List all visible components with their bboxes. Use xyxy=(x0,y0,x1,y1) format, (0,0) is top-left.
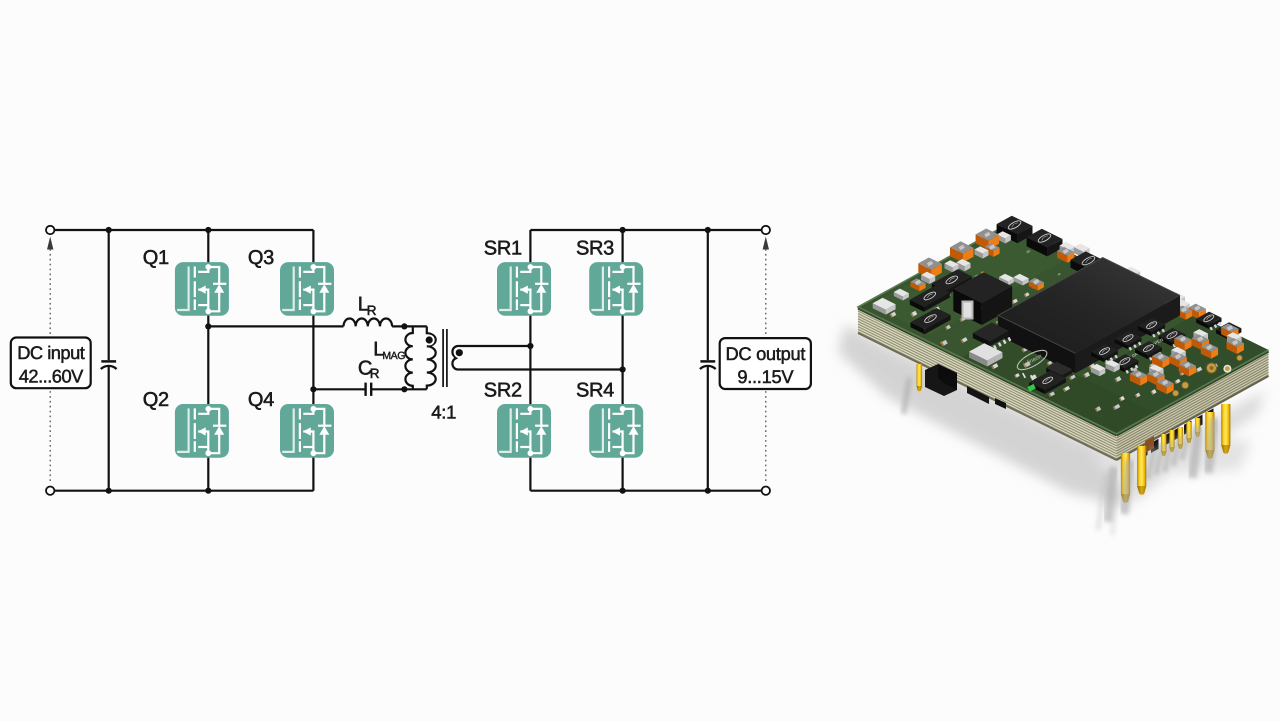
back-right orange 2 xyxy=(1189,304,1206,320)
power block logo 2 xyxy=(1027,229,1063,257)
power block logo 3 xyxy=(1071,251,1107,278)
SO-8 rectifier 4 xyxy=(1135,341,1162,361)
silver shielded part xyxy=(969,343,1002,366)
svg-text:SR2: SR2 xyxy=(484,380,522,402)
small passives scattered xyxy=(890,250,1218,419)
gray IC near left corner xyxy=(873,298,896,315)
svg-text:42...60V: 42...60V xyxy=(19,366,84,387)
capacitor CR (resonant) xyxy=(364,383,366,396)
svg-text:9...15V: 9...15V xyxy=(737,366,794,387)
svg-text:4:1: 4:1 xyxy=(431,402,456,423)
dark pad row along front-right bottom edge xyxy=(1140,445,1148,459)
back-right cap 6 xyxy=(1156,290,1172,304)
MOSFET SR4 xyxy=(589,404,643,458)
MOSFET Q2 xyxy=(175,404,229,458)
output gray cap 7 xyxy=(1171,347,1186,361)
polarity dot primary xyxy=(424,335,435,346)
green LED xyxy=(1027,384,1036,392)
capacitor: input bulk cap xyxy=(101,360,116,363)
wire: SR1/SR2 leg xyxy=(529,230,531,491)
back-right cap 3 xyxy=(1110,265,1126,279)
output orange cap 8 xyxy=(1174,335,1191,351)
svg-text:R: R xyxy=(370,366,380,381)
wire: secondary top rail xyxy=(530,229,765,231)
driver IC A xyxy=(910,285,950,311)
back-right orange xyxy=(1057,247,1074,263)
back edge wcap B xyxy=(945,260,959,272)
polarity dot secondary xyxy=(454,347,465,358)
wire: output cap branch xyxy=(707,230,709,360)
SO-8 rectifier 6 xyxy=(1159,328,1186,348)
gold pins short row xyxy=(1148,448,1154,479)
transformer core xyxy=(442,329,444,387)
wire: secondary top xyxy=(458,345,531,347)
infineon silkscreen oval logo xyxy=(1015,347,1050,374)
back-right cap 1 xyxy=(1060,242,1076,256)
small orange back left xyxy=(911,278,926,291)
planar transformer black box xyxy=(953,272,1012,325)
back edge orange E xyxy=(985,243,1000,257)
small orange mid back xyxy=(1029,278,1044,291)
small black SOT below chip xyxy=(1046,362,1072,380)
inductor LMAG (magnetizing) xyxy=(405,326,412,389)
MOSFET SR2 xyxy=(497,404,551,458)
output orange cap 4 xyxy=(1152,352,1169,368)
tantalum cap back row 1 xyxy=(918,258,942,279)
svg-text:MAG: MAG xyxy=(382,350,405,362)
output gray cap 11 xyxy=(1193,329,1208,343)
tantalum cap back row 3 xyxy=(976,229,1000,250)
SO-8 rectifier 5 xyxy=(1138,318,1165,338)
DC output box xyxy=(720,338,811,389)
wire: CR to primary bottom xyxy=(371,388,427,390)
output orange cap 1 xyxy=(1147,370,1164,386)
svg-text:Q4: Q4 xyxy=(248,389,274,411)
shadow streaks under pins xyxy=(1098,472,1119,535)
transformer primary winding xyxy=(427,326,436,389)
SO-8 rectifier 2 xyxy=(1111,354,1138,374)
back-right cap 4 xyxy=(1125,267,1141,281)
svg-text:Q1: Q1 xyxy=(143,247,169,269)
black connector housings under board xyxy=(925,364,957,396)
svg-text:Q3: Q3 xyxy=(248,247,274,269)
silkscreen id text xyxy=(1127,337,1164,361)
wire: Q1/Q2 leg xyxy=(207,230,209,491)
back-right cap 8 xyxy=(1174,299,1190,313)
MOSFET Q1 xyxy=(175,262,229,316)
gold pin left xyxy=(904,378,910,414)
PCB laminated side, front-right xyxy=(1117,350,1269,461)
output gray cap 3 xyxy=(1149,365,1164,379)
output orange cap 0 xyxy=(1130,370,1147,386)
gold pad A xyxy=(1207,363,1217,373)
output orange cap 2 xyxy=(1156,378,1173,394)
back edge wcap D xyxy=(974,246,988,258)
wire: secondary bottom xyxy=(458,368,623,370)
test point ticks xyxy=(1022,373,1058,387)
driver IC B xyxy=(932,269,972,295)
module drop shadow xyxy=(838,325,1265,508)
caps under chip edge 1 xyxy=(1091,364,1105,376)
SO-8 right edge b xyxy=(1216,322,1241,339)
big planar magnetics block xyxy=(998,258,1180,374)
output orange cap 10 xyxy=(1201,343,1218,359)
output orange cap 9 xyxy=(1192,334,1209,350)
wire: input cap branch xyxy=(108,230,110,360)
output orange cap 6 xyxy=(1179,361,1196,377)
back-right cap 2 xyxy=(1074,244,1090,258)
driver IC C xyxy=(911,308,951,334)
corner orange cap a xyxy=(1227,338,1244,354)
gold via pads xyxy=(927,292,931,296)
SO-8 below transformer xyxy=(973,323,1012,350)
wire: Q3/Q4 mid to CR xyxy=(313,388,365,390)
back edge gray F xyxy=(997,231,1011,243)
gold pins long xyxy=(1108,467,1114,522)
svg-text:SR1: SR1 xyxy=(484,238,522,260)
back-right orange 3 xyxy=(1176,306,1192,320)
DC input box xyxy=(11,338,91,389)
PCB module 3D render xyxy=(838,216,1269,535)
small cap back left xyxy=(894,289,909,301)
gold pad B xyxy=(1223,365,1231,373)
svg-text:SR3: SR3 xyxy=(576,238,614,260)
dashed output voltage arrow xyxy=(765,249,767,484)
back edge wcap C xyxy=(957,259,971,271)
back edge wcap A xyxy=(921,272,935,284)
wire: primary bottom rail xyxy=(50,490,313,492)
back-right cap 7 xyxy=(1169,292,1185,306)
Schematic: full-bridge LLC DC-DC converter xyxy=(11,226,811,495)
svg-text:DC input: DC input xyxy=(17,342,85,363)
inductor LR (resonant) xyxy=(344,318,393,326)
wire: primary top rail xyxy=(50,229,313,231)
MOSFET Q3 xyxy=(280,262,334,316)
corner orange cap b xyxy=(1221,324,1238,340)
PCB top surface xyxy=(858,223,1269,434)
tantalum cap back row 2 xyxy=(950,241,974,262)
wire: bridge mid to LR xyxy=(208,325,343,327)
MOSFET Q4 xyxy=(280,404,334,458)
soldermask shade patches xyxy=(871,230,1269,434)
wire: SR3/SR4 leg xyxy=(621,230,623,491)
SO-8 right edge a xyxy=(1196,312,1221,331)
MOSFET SR1 xyxy=(497,262,551,316)
back-right cap 5 xyxy=(1127,275,1143,289)
svg-text:DC output: DC output xyxy=(725,343,805,364)
svg-text:R: R xyxy=(367,303,377,318)
dashed input voltage arrow xyxy=(49,249,51,484)
wire: LR to primary node xyxy=(392,325,427,327)
caps under chip edge 2 xyxy=(1106,360,1120,372)
svg-text:SR4: SR4 xyxy=(576,380,614,402)
input/output terminals xyxy=(46,226,54,234)
junction nodes xyxy=(106,227,711,494)
laminate stripes xyxy=(858,308,1269,460)
SO-8 rectifier 1 xyxy=(1091,344,1118,364)
PCB laminated side, front-left xyxy=(858,307,1117,461)
capacitor: output cap xyxy=(700,360,715,363)
power block logo 1 xyxy=(997,216,1033,244)
transformer secondary winding xyxy=(452,346,457,370)
black SOIC near front edge xyxy=(1029,371,1066,394)
small caps mid back 2 xyxy=(1014,274,1029,286)
MOSFET SR3 xyxy=(589,262,643,316)
wire: Q3/Q4 leg xyxy=(312,230,314,491)
svg-text:Q2: Q2 xyxy=(143,389,169,411)
wire: secondary bottom rail xyxy=(530,490,765,492)
small caps mid back xyxy=(999,274,1014,286)
output orange cap 5 xyxy=(1170,352,1187,368)
corner gray cap xyxy=(1227,332,1242,346)
SO-8 rectifier 3 xyxy=(1115,331,1142,351)
